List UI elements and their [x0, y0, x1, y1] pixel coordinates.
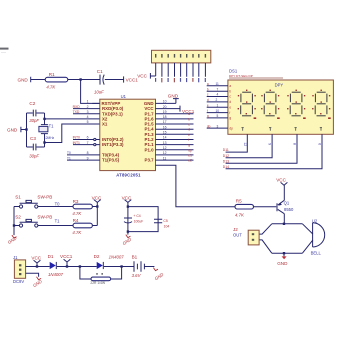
svg-text:e1: e1: [188, 153, 192, 157]
svg-text:X1: X1: [102, 122, 108, 127]
connector J2 OUT: [233, 227, 259, 245]
svg-text:TXD: TXD: [73, 110, 80, 114]
ground GND (switches): [7, 235, 18, 245]
7-seg digit 4: [315, 92, 327, 116]
svg-text:DS1: DS1: [229, 68, 238, 73]
node: [13, 224, 15, 226]
svg-text:SW-PB: SW-PB: [37, 214, 52, 219]
display input net labels: [207, 82, 211, 128]
svg-text:e2: e2: [188, 159, 192, 163]
svg-text:4.7K: 4.7K: [72, 211, 82, 216]
svg-text:e: e: [229, 105, 231, 109]
svg-text:d: d: [188, 128, 190, 132]
svg-text:4.7K: 4.7K: [72, 230, 82, 235]
wire filter loop: [128, 202, 158, 231]
digit 2 segment letter marks: [261, 90, 280, 119]
wire P3.7 to R5: [156, 165, 236, 207]
svg-text:INT1(P3.3): INT1(P3.3): [102, 142, 124, 147]
svg-text:11: 11: [163, 156, 167, 160]
svg-text:18: 18: [163, 115, 167, 119]
svg-text:B1: B1: [132, 254, 138, 259]
svg-text:30pF: 30pF: [29, 118, 39, 123]
power port VCC1 (top): [124, 76, 139, 82]
battery B1 3.6V: [132, 254, 145, 277]
ground GND (U1 pin 10): [168, 93, 179, 103]
svg-text:R1: R1: [49, 72, 55, 77]
svg-text:b: b: [207, 87, 209, 91]
resistor R1 4.7K: [45, 72, 68, 90]
7-seg digit 2: [264, 92, 276, 116]
switch S2 SW-PB: [15, 214, 52, 227]
svg-text:DPY: DPY: [275, 82, 284, 87]
svg-text:S2: S2: [15, 214, 21, 219]
svg-text:104: 104: [164, 225, 170, 229]
wire: [14, 225, 73, 227]
svg-text:D14: D14: [223, 165, 229, 169]
svg-text:20: 20: [163, 105, 167, 109]
svg-text:11: 11: [216, 82, 220, 86]
svg-text:T1: T1: [67, 156, 71, 160]
wire: [45, 266, 97, 268]
pin 7 bubble: [94, 144, 96, 146]
wire X1: [45, 124, 100, 143]
svg-text:C3: C3: [30, 136, 36, 141]
svg-text:S1: S1: [15, 195, 21, 200]
power port VCC (Q1): [276, 178, 287, 201]
wire: [34, 79, 45, 81]
wire digit select D12: [226, 134, 273, 158]
svg-text:T0: T0: [67, 151, 71, 155]
svg-text:P3.7: P3.7: [145, 158, 155, 163]
svg-text:VCC1: VCC1: [60, 254, 73, 259]
resistor R4 4.7K: [72, 218, 92, 235]
svg-text:4.7K: 4.7K: [235, 212, 245, 217]
node: [25, 128, 27, 130]
svg-text:f: f: [188, 138, 189, 142]
svg-text:INT1: INT1: [73, 141, 80, 145]
node: [96, 205, 98, 207]
svg-text:Q1: Q1: [284, 200, 290, 205]
svg-text:4: 4: [87, 115, 89, 119]
svg-text:OUT: OUT: [233, 233, 242, 238]
svg-text:VCC1: VCC1: [182, 109, 195, 114]
svg-text:e: e: [188, 133, 190, 137]
svg-text:1N4007: 1N4007: [109, 254, 125, 259]
display pin numbers: [216, 82, 220, 128]
crystal T1 12MHz: [39, 113, 55, 147]
J3 pin bottom labels: [155, 78, 206, 82]
connector J1 DC9V: [13, 255, 26, 284]
node: [127, 205, 129, 207]
svg-text:D11: D11: [223, 148, 229, 152]
buzzer U2 BELL: [311, 219, 325, 256]
svg-text:GND: GND: [154, 272, 165, 281]
svg-text:12MHz: 12MHz: [44, 136, 55, 140]
svg-text:C2: C2: [29, 101, 35, 106]
svg-text:g: g: [188, 143, 190, 147]
wire J1 to VCC node: [26, 266, 45, 268]
U1 right pin names: [144, 101, 155, 163]
svg-text:T1: T1: [49, 124, 55, 129]
node: [43, 118, 45, 120]
svg-text:GND: GND: [277, 261, 288, 266]
svg-text:4: 4: [217, 93, 219, 97]
svg-text:3: 3: [87, 110, 89, 114]
svg-text:30pF: 30pF: [29, 154, 39, 159]
node battery join: [120, 265, 122, 267]
wire: [144, 266, 154, 268]
svg-text:AT89C2051: AT89C2051: [116, 172, 141, 177]
svg-text:1: 1: [87, 100, 89, 104]
svg-text:6: 6: [318, 143, 322, 145]
svg-text:J1: J1: [13, 255, 18, 260]
7-seg digit 1: [241, 92, 253, 116]
svg-text:P1.0: P1.0: [145, 147, 155, 152]
svg-text:T1(P3.5): T1(P3.5): [102, 158, 120, 163]
display pin name letters inside: [229, 84, 233, 130]
diode D2 1N4007: [94, 254, 125, 269]
svg-text:D1: D1: [48, 254, 54, 259]
power port VCC1 (after D1): [60, 254, 73, 266]
svg-text:12: 12: [163, 146, 167, 150]
display DS1 type label: [229, 74, 283, 78]
svg-text:GND: GND: [122, 237, 133, 246]
svg-text:10uF: 10uF: [94, 89, 104, 94]
ground GND (RST pull-down, top left): [18, 77, 35, 83]
power port VCC (filter): [122, 196, 132, 203]
svg-text:a: a: [207, 82, 209, 86]
wire: [68, 79, 100, 81]
svg-text:16: 16: [163, 125, 167, 129]
wire J1 pin2 to ground: [26, 273, 39, 277]
svg-text:9: 9: [87, 156, 89, 160]
svg-text:5: 5: [87, 120, 89, 124]
stray crop mark top-left: [0, 48, 9, 53]
svg-text:1N4007: 1N4007: [48, 272, 64, 277]
svg-text:a: a: [229, 84, 231, 88]
node: [43, 141, 45, 143]
svg-text:d: d: [229, 100, 231, 104]
resistor R5 4.7K: [235, 198, 254, 217]
svg-text:10: 10: [216, 109, 220, 113]
svg-text:T1: T1: [55, 219, 61, 224]
svg-text:g: g: [207, 114, 209, 118]
power port VCC (keys): [92, 196, 102, 203]
op-amp U1 AT89C2051 body: [100, 94, 156, 177]
svg-text:12: 12: [163, 151, 167, 155]
svg-text:T0: T0: [55, 202, 61, 207]
svg-text:GND: GND: [32, 279, 43, 288]
svg-text:DC9V: DC9V: [13, 279, 24, 284]
J3 pins: [156, 63, 206, 77]
svg-text:+ C4: + C4: [133, 214, 140, 218]
svg-text:b: b: [188, 117, 190, 121]
ground GND (buzzer): [277, 252, 288, 266]
svg-text:19: 19: [163, 110, 167, 114]
transistor Q1 8550: [277, 200, 294, 213]
svg-text:R5: R5: [236, 198, 242, 203]
wire digit select D14: [226, 134, 322, 169]
right pin net letter labels a-dp: [188, 112, 192, 162]
capacitor C2 30pF: [27, 101, 45, 123]
svg-text:8: 8: [293, 143, 297, 145]
capacitor C4 100uF: [124, 214, 143, 223]
svg-text:C5: C5: [163, 219, 167, 223]
wire buzzer loop: [272, 224, 303, 253]
power port VCC1 (U1 pin 20): [180, 106, 195, 115]
capacitor C1 10uF: [94, 69, 104, 94]
svg-text:2: 2: [87, 105, 89, 109]
wire X2: [45, 118, 100, 120]
svg-text:22R 1/4W: 22R 1/4W: [90, 281, 106, 285]
svg-text:10: 10: [163, 100, 167, 104]
power port VCC (J3 pin 1): [137, 73, 156, 79]
ground GND (filter): [122, 232, 133, 246]
svg-text:7: 7: [217, 87, 219, 91]
J3 pin numbers inside: [155, 54, 206, 58]
wire digit select D11: [226, 134, 248, 152]
svg-text:e: e: [207, 103, 209, 107]
pin 6 bubble: [94, 138, 96, 140]
svg-text:6: 6: [87, 136, 89, 140]
svg-text:VCC: VCC: [31, 255, 41, 260]
svg-text:f: f: [229, 111, 230, 115]
svg-text:14: 14: [163, 136, 167, 140]
svg-text:dp: dp: [229, 126, 233, 130]
svg-text:GND: GND: [7, 127, 18, 132]
digit 3 segment letter marks: [287, 90, 306, 119]
svg-text:8550: 8550: [284, 207, 294, 212]
svg-text:7: 7: [87, 141, 89, 145]
svg-text:f: f: [207, 109, 208, 113]
U1 right pin stubs: [156, 103, 194, 160]
resistor R6 (charge limit): [90, 273, 110, 285]
wire collector down: [283, 214, 285, 224]
svg-text:9: 9: [268, 143, 272, 145]
svg-text:5: 5: [217, 114, 219, 118]
svg-text:GND: GND: [18, 77, 29, 82]
svg-text:R4: R4: [73, 218, 79, 223]
wire left rail of crystal cluster: [26, 113, 28, 147]
svg-text:12: 12: [243, 142, 247, 146]
svg-text:GND: GND: [168, 93, 179, 98]
digit common pin marks inside bottom: [242, 127, 323, 131]
connector J3 (header, top): [152, 50, 211, 63]
ground GND (J1): [32, 277, 43, 288]
switch S1 SW-PB: [15, 195, 52, 208]
svg-text:D2: D2: [94, 254, 100, 259]
diode D1 1N4007: [48, 254, 64, 277]
svg-text:2: 2: [216, 98, 218, 102]
resistor R3 4.7K: [72, 199, 92, 216]
node: [283, 223, 285, 225]
power port VCC (J1): [31, 255, 41, 266]
svg-text:BELL: BELL: [311, 251, 322, 256]
U1 right pin numbers: [163, 100, 167, 161]
digit 4 segment letter marks: [312, 90, 331, 119]
capacitor C3 30pF: [27, 136, 45, 158]
capacitor C5 104: [154, 219, 169, 229]
svg-text:INT0: INT0: [73, 136, 80, 140]
wire digit select D13: [226, 134, 297, 163]
svg-text:dp: dp: [207, 124, 211, 128]
ground GND (battery): [153, 268, 164, 282]
svg-text:b: b: [229, 89, 231, 93]
wire loop left diagonals to J2: [259, 224, 272, 253]
svg-text:g: g: [229, 116, 231, 120]
svg-text:1: 1: [217, 103, 219, 107]
digit select pin numbers: [243, 142, 322, 146]
wire R3/R4 to VCC rail: [92, 202, 97, 225]
node: [36, 265, 38, 267]
svg-text:U1: U1: [121, 94, 127, 99]
svg-text:SW-PB: SW-PB: [37, 195, 52, 200]
svg-text:DPY DT-SEG DP: DPY DT-SEG DP: [229, 74, 253, 78]
display DS1 body: [228, 80, 334, 134]
wire lower branch: [80, 267, 122, 280]
svg-text:D12: D12: [223, 154, 229, 158]
wire RST to pin 1: [81, 80, 100, 104]
svg-text:dp: dp: [188, 148, 192, 152]
node branch split: [79, 265, 81, 267]
svg-text:3: 3: [217, 124, 219, 128]
wire loop right diagonals to bell: [302, 224, 313, 253]
svg-text:d: d: [207, 98, 209, 102]
svg-text:J2: J2: [233, 227, 238, 232]
svg-text:VCC: VCC: [137, 74, 147, 79]
node: [127, 230, 129, 232]
wire: [104, 266, 134, 268]
wire: [14, 206, 73, 208]
digit 1 segment letter marks: [238, 90, 257, 119]
svg-text:13: 13: [163, 141, 167, 145]
wire R5 to base: [254, 206, 277, 208]
svg-text:RXD: RXD: [73, 105, 81, 109]
svg-text:8: 8: [87, 151, 89, 155]
wire: [105, 79, 124, 81]
svg-text:3.6V: 3.6V: [132, 273, 142, 278]
U1 left pin names: [102, 101, 125, 163]
U1 left pin numbers: [87, 100, 89, 161]
svg-text:15: 15: [163, 131, 167, 135]
svg-text:100uF: 100uF: [134, 220, 144, 224]
7-seg digit 3: [290, 92, 302, 116]
svg-text:17: 17: [163, 120, 167, 124]
svg-text:R3: R3: [73, 199, 79, 204]
svg-text:4.7K: 4.7K: [46, 85, 56, 90]
node: [66, 265, 68, 267]
node RST junction: [79, 78, 81, 80]
wire switch ground rail: [13, 207, 15, 236]
ground GND (crystal): [7, 127, 27, 133]
display segment input wires a-dp: [207, 86, 228, 128]
U1 left pin stubs: [67, 103, 100, 160]
svg-text:C1: C1: [97, 69, 103, 74]
svg-text:D13: D13: [223, 159, 229, 163]
svg-text:VCC: VCC: [276, 178, 286, 183]
